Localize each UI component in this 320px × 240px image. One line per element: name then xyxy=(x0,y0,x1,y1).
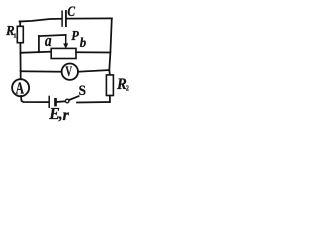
svg-text:a: a xyxy=(45,33,52,50)
svg-text:A: A xyxy=(16,79,25,98)
wire switch to right rail xyxy=(77,101,110,104)
switch S lever xyxy=(69,96,79,100)
svg-text:b: b xyxy=(80,34,87,49)
svg-text:r: r xyxy=(63,105,70,124)
svg-text:C: C xyxy=(67,3,76,20)
wire wiper horizontal to slider xyxy=(39,35,66,36)
slider arrowhead xyxy=(63,43,68,49)
switch S pivot circle xyxy=(65,99,69,103)
wire battery to switch xyxy=(57,100,65,103)
slider arrow shaft P xyxy=(65,35,67,44)
battery E,r long plate (+) xyxy=(48,96,50,107)
svg-text:V: V xyxy=(65,63,72,80)
rheostat body box xyxy=(51,48,76,58)
resistor R1 box xyxy=(17,26,23,42)
wire R2 bottom stub xyxy=(109,96,111,102)
svg-text:2: 2 xyxy=(126,85,130,93)
wire top rail left of capacitor xyxy=(20,19,62,22)
capacitor C right plate xyxy=(65,11,67,26)
ammeter A circle xyxy=(12,79,29,96)
svg-text:S: S xyxy=(79,84,87,100)
resistor R2 box xyxy=(106,75,113,96)
wire left rail R1 to ammeter xyxy=(19,43,21,79)
wire wiper riser vertical xyxy=(38,36,40,52)
wire voltmeter left xyxy=(21,70,62,73)
svg-text:1: 1 xyxy=(13,33,16,40)
battery E,r short plate (-) xyxy=(54,99,57,105)
wire right rail xyxy=(109,18,112,75)
wire top-left from R1 up xyxy=(19,21,21,26)
svg-text:P: P xyxy=(71,27,79,43)
wire ammeter bottom corner xyxy=(21,96,48,102)
wire rheostat b terminal to right rail xyxy=(76,51,110,53)
wire voltmeter right xyxy=(78,70,109,72)
wire top rail right of capacitor xyxy=(67,17,112,19)
voltmeter V circle xyxy=(62,63,78,79)
capacitor C left plate xyxy=(61,11,63,26)
wire rheostat feed horizontal xyxy=(21,52,52,53)
